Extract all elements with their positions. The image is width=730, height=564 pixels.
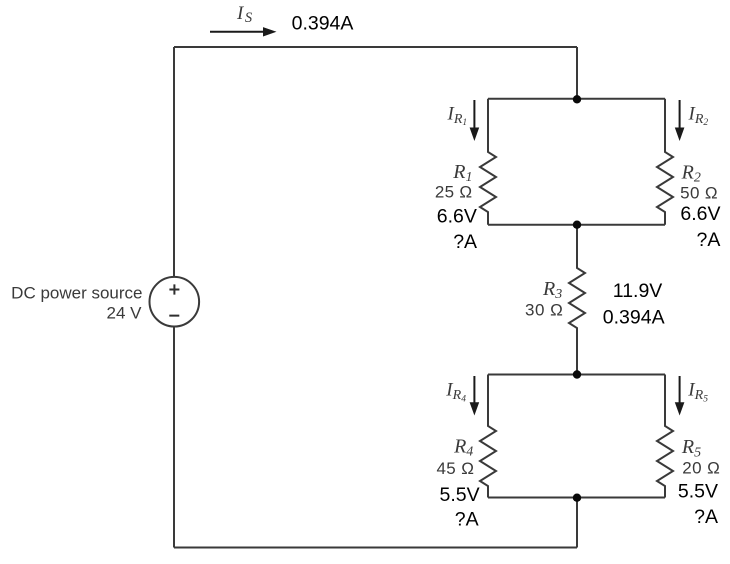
svg-text:?A: ?A	[455, 509, 479, 531]
svg-text:20 Ω: 20 Ω	[682, 458, 720, 477]
svg-text:?A: ?A	[453, 231, 477, 253]
svg-text:24 V: 24 V	[107, 304, 143, 323]
svg-text:5.5V: 5.5V	[440, 484, 480, 506]
svg-text:6.6V: 6.6V	[680, 203, 720, 225]
svg-text:11.9V: 11.9V	[613, 280, 663, 302]
svg-text:6.6V: 6.6V	[437, 206, 477, 228]
svg-text:?A: ?A	[694, 506, 718, 528]
svg-text:45 Ω: 45 Ω	[436, 459, 474, 478]
svg-text:25 Ω: 25 Ω	[435, 183, 473, 202]
svg-text:?A: ?A	[697, 229, 721, 251]
svg-text:0.394A: 0.394A	[292, 13, 354, 35]
svg-text:0.394A: 0.394A	[603, 306, 665, 328]
svg-text:50 Ω: 50 Ω	[680, 184, 718, 203]
svg-text:DC power source: DC power source	[11, 283, 142, 302]
svg-text:30 Ω: 30 Ω	[525, 301, 563, 320]
svg-text:5.5V: 5.5V	[678, 481, 718, 503]
